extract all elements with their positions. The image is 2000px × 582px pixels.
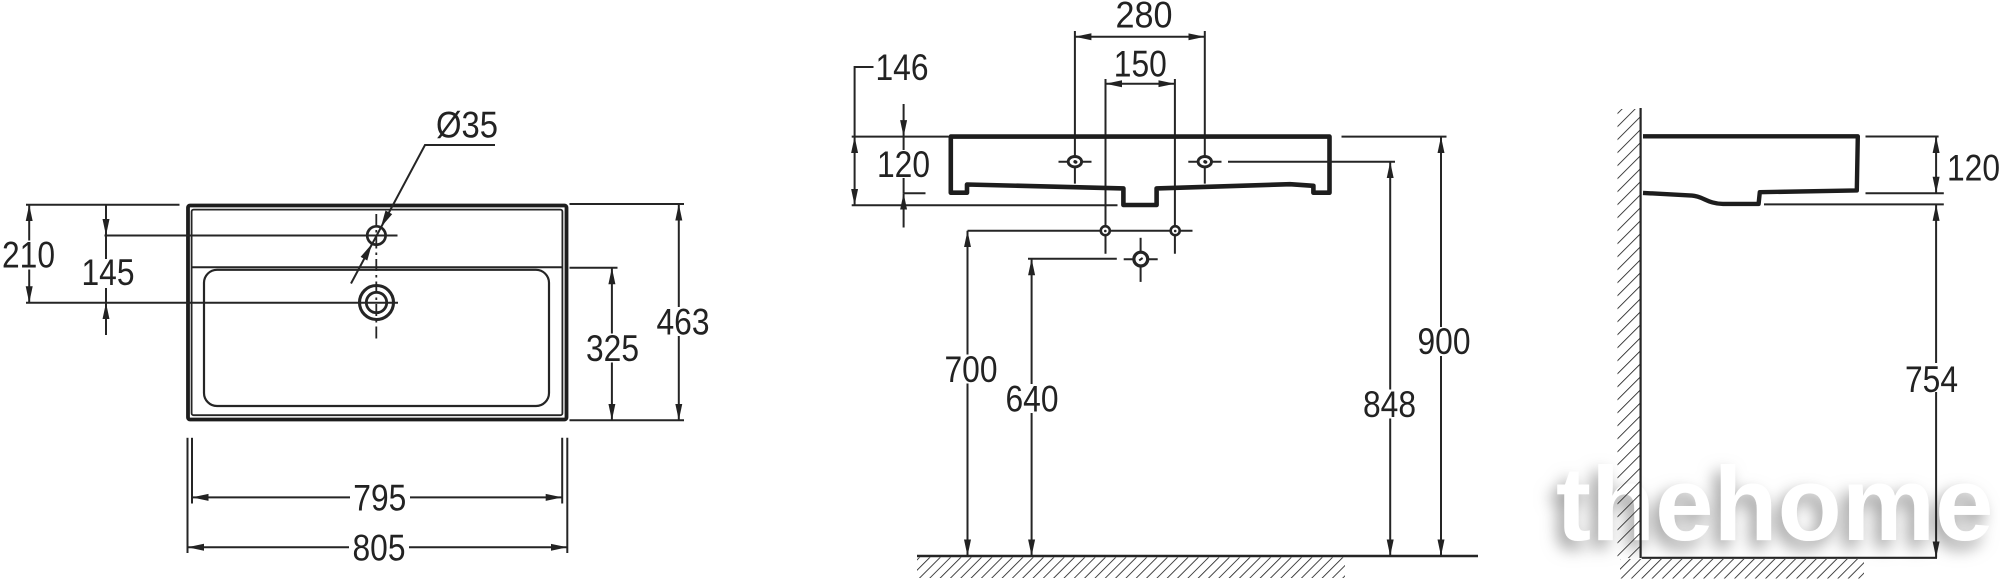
drain horizontal centerline / extension: [26, 302, 398, 304]
640 extension line: [1028, 258, 1117, 260]
dimension 120: [1935, 137, 1937, 194]
svg-text:210: 210: [2, 235, 55, 276]
fixing holes horizontal line: [968, 230, 1193, 232]
dimension 325: [611, 268, 613, 421]
svg-text:Ø35: Ø35: [436, 105, 498, 146]
basin inner rim: [192, 210, 563, 416]
floor line: [917, 555, 1478, 557]
svg-text:900: 900: [1418, 321, 1471, 362]
900 extension line: [1342, 136, 1447, 138]
floor hatching: [1620, 559, 1864, 579]
top-left extension line: [26, 204, 180, 206]
146 label bracket: [855, 67, 874, 137]
left hole crosshair: [1059, 161, 1092, 163]
top-left extension line (sink top): [852, 136, 949, 138]
dimension 150: [1106, 83, 1175, 85]
svg-text:754: 754: [1905, 359, 1958, 400]
floor line: [1642, 557, 1937, 559]
dimension 146: [854, 137, 856, 206]
faucet hole horizontal centerline: [105, 235, 398, 237]
280 extension line right (through right faucet hole): [1204, 31, 1206, 184]
dimension 795/805 extension lines: [187, 438, 189, 553]
faucet hole circle: [367, 226, 385, 244]
sink body outline (front profile): [951, 137, 1330, 205]
deck back line: [193, 266, 563, 268]
dimension 805: [188, 546, 568, 548]
848 extension line: [1228, 161, 1395, 163]
drain crosshair: [1124, 258, 1158, 260]
vertical centerline (dash-dot): [375, 214, 377, 339]
dimension 463 extension lines: [570, 203, 685, 205]
dimension 463: [678, 204, 680, 420]
150 extension line right: [1174, 79, 1176, 254]
svg-text:120: 120: [1947, 148, 2000, 189]
left faucet hole (front): [1068, 157, 1081, 167]
svg-text:150: 150: [1114, 44, 1167, 85]
svg-text:700: 700: [945, 349, 998, 390]
svg-text:795: 795: [353, 478, 406, 519]
120 extension lines: [1866, 136, 1939, 138]
svg-text:146: 146: [876, 47, 929, 88]
svg-text:848: 848: [1363, 384, 1416, 425]
sink body outline (side profile): [1643, 136, 1858, 204]
right faucet hole (front): [1198, 157, 1211, 167]
wall line: [1639, 108, 1641, 558]
dimension 640: [1031, 259, 1033, 556]
svg-text:640: 640: [1006, 379, 1059, 420]
leader arrowheads at faucet hole: [381, 211, 392, 228]
dimension 145: [105, 205, 107, 236]
svg-text:145: 145: [82, 252, 135, 293]
drain boss bottom extension line: [852, 204, 1118, 206]
fixing hole right: [1171, 226, 1180, 235]
dimension 795: [192, 496, 562, 498]
basin outer rim (thick rectangle): [188, 206, 567, 420]
floor hatching: [917, 557, 1345, 578]
280 extension line left (through left faucet hole): [1074, 31, 1076, 184]
svg-text:280: 280: [1116, 0, 1173, 36]
fixing hole left: [1101, 226, 1110, 235]
bowl rounded rect: [204, 270, 549, 406]
120 bottom tick (sink bottom extension): [904, 192, 926, 194]
dimension 210: [28, 205, 30, 303]
dimension 120 (outside arrows): [903, 104, 905, 137]
svg-text:120: 120: [877, 144, 930, 185]
right hole crosshair: [1188, 161, 1221, 163]
leader line for hole diameter: [351, 145, 495, 284]
drain outer circle: [360, 286, 394, 320]
svg-text:325: 325: [586, 328, 639, 369]
wall hatching: [1618, 109, 1641, 558]
drain hole circle: [1134, 252, 1148, 266]
dimension 754: [1935, 204, 1937, 557]
dimension 325 extension line: [570, 267, 618, 269]
dimension 900: [1440, 137, 1442, 556]
dimension 280: [1075, 36, 1205, 38]
754 top extension line: [1764, 203, 1944, 205]
dimension 700: [967, 231, 969, 556]
svg-text:805: 805: [353, 528, 406, 569]
150 extension line left: [1105, 79, 1107, 254]
drain inner circle: [366, 292, 386, 312]
dimension 848: [1389, 162, 1391, 556]
svg-text:463: 463: [657, 302, 710, 343]
